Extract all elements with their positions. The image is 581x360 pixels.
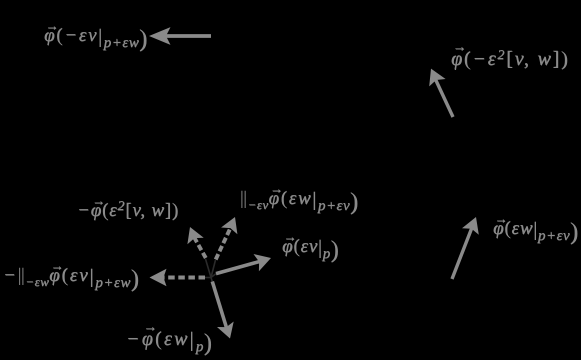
node G label: -vec phi(eps w|p)	[126, 329, 212, 355]
node E label: vec phi(eps v|p)	[282, 237, 339, 262]
node A label: vec phi(-eps v|p+eps w)	[44, 26, 147, 51]
wire thick left arrow (top-left)	[149, 27, 211, 45]
node B label: vec phi(-eps^2[v, w])	[451, 49, 569, 69]
wire solid arrow down (center cluster)	[212, 282, 233, 339]
node C label: vec phi(eps w|p+eps v)	[493, 219, 578, 244]
wire arrow up-left (top-right, to label phi(-eps^2[v,w]))	[429, 69, 453, 117]
node center faint spokes	[205, 259, 216, 282]
wire dashed arrow up (center cluster)	[187, 227, 205, 258]
node D1 label: -vec phi(eps^2[v, w])	[77, 200, 179, 220]
node F label: -||-eps w vec phi(eps v|p+eps w)	[3, 266, 139, 291]
wire solid arrow right (center cluster)	[216, 254, 271, 274]
wire dashed arrow up-right (center cluster)	[216, 217, 238, 260]
node D2 label: ||-eps v vec phi(eps w|p+eps v)	[240, 189, 358, 214]
wire arrow up-right (right side, to label phi(eps w|p+eps v))	[452, 217, 479, 279]
wire dashed arrow left (center cluster)	[150, 269, 206, 287]
